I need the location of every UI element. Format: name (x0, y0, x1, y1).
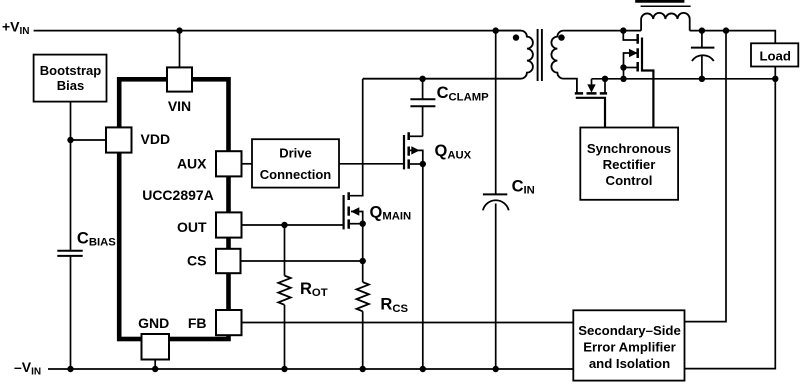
node junction VDD/bias (67, 137, 73, 143)
wire output top rail (690, 31, 776, 44)
node junction +VIN/VIN pin (176, 27, 182, 33)
svg-text:UCC2897A: UCC2897A (142, 187, 214, 203)
node junction OUT/ROT (281, 222, 287, 228)
pin OUT (216, 212, 242, 237)
svg-text:OUT: OUT (177, 219, 207, 235)
pin GND (142, 334, 170, 360)
svg-text:QMAIN: QMAIN (370, 204, 412, 223)
svg-text:ROT: ROT (300, 280, 328, 299)
node junction CS/RCS (360, 258, 366, 264)
node junction ROT/-VIN (281, 366, 287, 372)
transistor Q2 QMAIN (344, 79, 366, 229)
wire OUT pin to QMAIN gate (242, 224, 344, 226)
node junction body lead / rail (602, 76, 608, 82)
Load block (751, 43, 798, 66)
svg-text:CIN: CIN (512, 178, 535, 197)
node junction RCS/-VIN (360, 366, 366, 372)
svg-text:Connection: Connection (260, 167, 332, 182)
transistor SR freewheel FET (horizontal, in bottom leg) (575, 79, 607, 128)
svg-text:CCLAMP: CCLAMP (437, 84, 490, 103)
wire AUX pin to Drive Connection (242, 163, 253, 165)
capacitor COUT (polarized) (691, 31, 715, 79)
node junction COUT/return rail (699, 76, 705, 82)
svg-text:Secondary–Side: Secondary–Side (578, 323, 681, 338)
node junction Load/return rail (772, 76, 778, 82)
wire +VIN bus (34, 30, 521, 32)
svg-text:AUX: AUX (177, 156, 207, 172)
wire CIN drop from +VIN bus (495, 31, 497, 194)
svg-text:+VIN: +VIN (2, 18, 30, 37)
capacitor CIN (polarized) (483, 194, 509, 369)
wire output return rail (592, 78, 776, 80)
node junction +VIN/CIN (493, 27, 499, 33)
Drive Connection block (252, 139, 339, 187)
node junction SR forward FET source / output return (620, 76, 626, 82)
node junction sense/top rail (723, 27, 729, 33)
svg-text:FB: FB (188, 315, 207, 331)
node junction COUT/top rail (699, 27, 705, 33)
resistor RCS (357, 261, 369, 369)
pin FB (216, 310, 242, 335)
node polarity dot secondary (558, 34, 564, 40)
transformer T1 secondary winding (551, 31, 577, 93)
transistor SR forward FET (vertical, next to inductor) (620, 31, 653, 128)
pin AUX (216, 151, 242, 176)
Synchronous Rectifier Control block (580, 128, 678, 200)
wire GND to -VIN bus (154, 360, 156, 370)
wire error amp sense to output top rail (685, 31, 727, 322)
wire secondary top rail (563, 30, 641, 32)
svg-text:VIN: VIN (168, 98, 191, 114)
svg-text:and Isolation: and Isolation (589, 356, 670, 371)
node junction GND/-VIN (152, 366, 158, 372)
pin CS (216, 249, 241, 273)
wire bootstrap to VDD and CBIAS (70, 102, 72, 250)
op-amp U1 UCC2897A IC body (119, 79, 228, 339)
capacitor CBIAS (57, 251, 82, 369)
wire VDD stub (71, 139, 107, 141)
svg-text:–VIN: –VIN (14, 359, 41, 378)
wire Load bottom stub (774, 67, 776, 79)
svg-text:CS: CS (187, 253, 206, 269)
node junction CIN/-VIN (493, 366, 499, 372)
wire error amp return to load bottom (685, 79, 776, 369)
svg-text:Drive: Drive (279, 146, 312, 161)
svg-text:QAUX: QAUX (435, 142, 472, 161)
svg-text:Bootstrap: Bootstrap (40, 63, 101, 78)
capacitor CCLAMP (410, 79, 435, 137)
node junction CBIAS/-VIN (67, 366, 73, 372)
pin VDD (106, 127, 132, 152)
wire VIN pin drop from +VIN bus (179, 31, 181, 68)
svg-text:Control: Control (606, 173, 653, 188)
node junction CCLAMP top (419, 76, 425, 82)
svg-text:Bias: Bias (57, 78, 84, 93)
svg-text:Synchronous: Synchronous (587, 141, 671, 156)
Bootstrap Bias block (34, 55, 107, 102)
transformer T1 primary winding (363, 31, 533, 79)
svg-text:Error Amplifier: Error Amplifier (583, 340, 676, 355)
node polarity dot primary (513, 34, 519, 40)
wire CS pin to RCS node (241, 260, 363, 262)
wire -VIN bus (48, 368, 573, 370)
svg-text:Load: Load (759, 48, 791, 63)
svg-text:CBIAS: CBIAS (77, 229, 116, 248)
pin VIN (167, 67, 192, 91)
wire Drive Connection to QAUX gate (339, 163, 404, 165)
node junction secondary top / SR forward FET drain (620, 27, 626, 33)
wire QAUX source to -VIN bus (422, 164, 424, 369)
svg-text:Rectifier: Rectifier (603, 157, 656, 172)
inductor L1 output (635, 1, 690, 30)
Secondary-Side Error Amplifier block (573, 310, 684, 380)
node junction QAUX/-VIN (420, 366, 426, 372)
svg-text:RCS: RCS (380, 296, 408, 315)
svg-text:GND: GND (138, 315, 169, 331)
wire QMAIN source to CS node (362, 224, 364, 261)
resistor ROT (278, 225, 290, 369)
wire clamp rail (QMAIN drain / primary bottom) (363, 78, 521, 80)
transformer T1 core (538, 29, 542, 81)
wire FB pin to secondary-side box (242, 322, 574, 324)
svg-text:VDD: VDD (141, 131, 171, 147)
transistor Q1 QAUX (404, 132, 426, 169)
